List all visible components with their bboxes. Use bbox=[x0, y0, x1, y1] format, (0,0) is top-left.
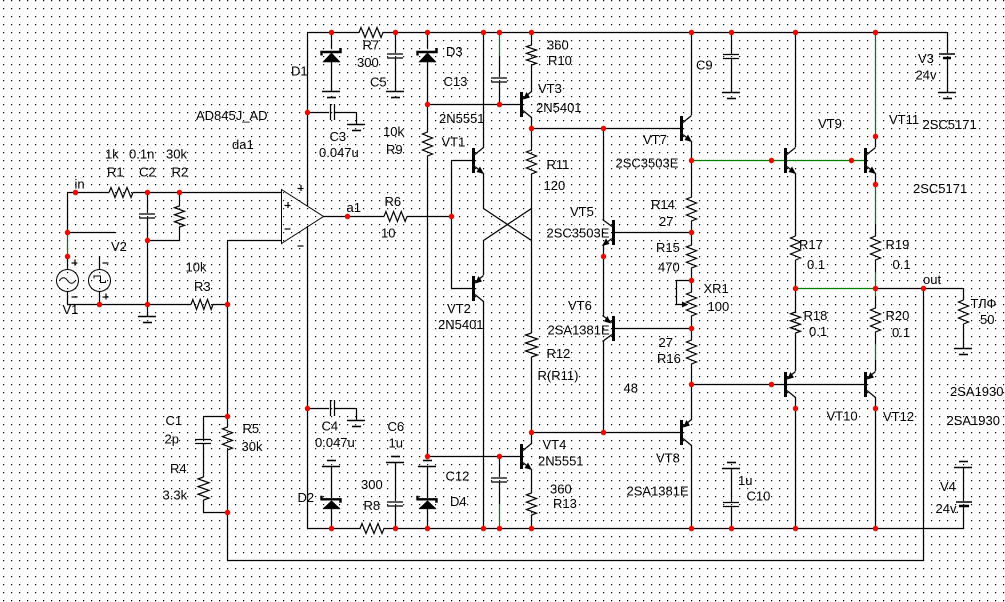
wire C12 bottom green bbox=[499, 504, 501, 528]
svg-text:R8: R8 bbox=[364, 498, 381, 513]
svg-text:24v.: 24v. bbox=[936, 501, 960, 516]
wire top positive rail left bbox=[307, 32, 331, 34]
wire R20 top green bbox=[875, 289, 877, 296]
resistor R1 1k bbox=[109, 188, 133, 198]
svg-text:27: 27 bbox=[659, 335, 673, 350]
svg-text:D3: D3 bbox=[446, 44, 463, 59]
svg-text:24v: 24v bbox=[916, 68, 937, 83]
wire VT8 base row bbox=[531, 432, 680, 434]
svg-text:da1: da1 bbox=[232, 137, 254, 152]
svg-text:V4: V4 bbox=[940, 479, 956, 494]
svg-text:100: 100 bbox=[708, 299, 730, 314]
wire R16 output base row bbox=[691, 384, 864, 386]
wire x531 middle column bbox=[531, 208, 533, 333]
wire VT5 VT6 emitter join bbox=[603, 245, 605, 316]
wire bottom row to R3 bbox=[67, 304, 191, 306]
svg-text:R5: R5 bbox=[243, 421, 260, 436]
wire C12 top lead bbox=[499, 456, 501, 477]
wire R9 column down bbox=[427, 168, 429, 456]
svg-text:AD845J_AD: AD845J_AD bbox=[196, 108, 268, 123]
wire left power vertical lower bbox=[307, 226, 309, 528]
svg-text:27: 27 bbox=[659, 214, 673, 229]
svg-text:R9: R9 bbox=[386, 142, 403, 157]
capacitor C10 1u bbox=[723, 503, 739, 507]
zener diode D1 bbox=[322, 32, 341, 91]
wire VT9 collector to rail bbox=[795, 32, 797, 147]
wire top positive rail right bbox=[395, 32, 947, 34]
capacitor C4 0.047u bbox=[307, 400, 357, 420]
svg-text:C13: C13 bbox=[444, 74, 468, 89]
wire feedback vertical upper bbox=[227, 240, 229, 416]
wire R13 to bottom rail bbox=[531, 515, 533, 528]
wire R17 to out row bbox=[795, 260, 797, 288]
svg-text:30k: 30k bbox=[242, 439, 263, 454]
wire VT11 emitter stub bbox=[875, 173, 877, 184]
wire R19 top green bbox=[875, 184, 877, 224]
svg-text:10: 10 bbox=[381, 226, 395, 241]
resistor R17 0.1 bbox=[791, 236, 801, 260]
wire VT3 collector stub bbox=[531, 117, 533, 128]
svg-text:3.3k: 3.3k bbox=[163, 488, 188, 503]
wire out row bbox=[875, 288, 963, 290]
resistor R5 30k bbox=[223, 416, 233, 512]
transistor VT9 2SC5171 bbox=[786, 148, 797, 175]
resistor R14 27 bbox=[687, 160, 697, 232]
source V1 sine bbox=[57, 256, 79, 297]
svg-text:10k: 10k bbox=[383, 124, 404, 139]
resistor R6 10 bbox=[384, 212, 407, 222]
resistor R9 10k bbox=[423, 104, 433, 168]
wire R18 to VT10 emitter bbox=[795, 333, 797, 371]
wire C10 top bbox=[731, 468, 733, 502]
svg-text:a1: a1 bbox=[347, 200, 361, 215]
wire bottom feedback return bbox=[227, 560, 923, 562]
svg-text:C3: C3 bbox=[330, 129, 347, 144]
svg-text:R16: R16 bbox=[657, 351, 681, 366]
svg-text:R19: R19 bbox=[886, 237, 910, 252]
svg-text:out: out bbox=[923, 272, 941, 287]
zener diode D2 bbox=[322, 466, 341, 528]
wire D3 node row bbox=[427, 104, 520, 106]
svg-text:0.047u: 0.047u bbox=[315, 435, 355, 450]
wire C2 R2 bottom join bbox=[147, 240, 179, 242]
battery V3 24v bbox=[939, 54, 955, 92]
wire VT5 collector up bbox=[603, 128, 605, 220]
svg-text:2SA1930: 2SA1930 bbox=[950, 384, 1004, 399]
svg-text:R1: R1 bbox=[107, 165, 124, 180]
wire C12 lower black lead bbox=[499, 482, 501, 504]
svg-text:ТЛФ: ТЛФ bbox=[971, 296, 997, 311]
svg-text:C1: C1 bbox=[166, 413, 183, 428]
wire C1 top lead bbox=[203, 416, 205, 439]
svg-text:VT5: VT5 bbox=[570, 204, 594, 219]
svg-text:VT10: VT10 bbox=[827, 409, 858, 424]
wire VT7 collector to rail bbox=[691, 32, 693, 115]
svg-text:VT11: VT11 bbox=[889, 112, 919, 127]
potentiometer XR1 100 body bbox=[687, 280, 697, 328]
svg-text:R7: R7 bbox=[363, 38, 380, 53]
svg-text:2SA1381E: 2SA1381E bbox=[627, 484, 689, 499]
svg-text:0.1: 0.1 bbox=[893, 257, 911, 272]
ground bars above D4 bbox=[418, 461, 436, 467]
ground bars above C10 bbox=[722, 463, 740, 469]
svg-text:48: 48 bbox=[624, 381, 638, 396]
svg-text:R11: R11 bbox=[547, 157, 570, 172]
wire cross diagonal 1 bbox=[484, 209, 532, 241]
potentiometer XR1 wiper bbox=[676, 280, 691, 308]
svg-text:300: 300 bbox=[361, 477, 383, 492]
svg-text:C6: C6 bbox=[388, 419, 405, 434]
wire out load drop bbox=[963, 288, 965, 300]
capacitor C9 bbox=[723, 55, 739, 59]
svg-text:R14: R14 bbox=[651, 197, 675, 212]
wire R1 to opamp noninverting input bbox=[133, 192, 281, 194]
svg-text:VT1: VT1 bbox=[442, 135, 466, 150]
svg-text:470: 470 bbox=[658, 260, 680, 275]
wire opamp output bbox=[323, 216, 384, 218]
svg-text:2N5401: 2N5401 bbox=[438, 317, 484, 332]
wire VT9 emitter to R17 bbox=[795, 173, 797, 236]
svg-text:C9: C9 bbox=[696, 58, 713, 73]
svg-text:C2: C2 bbox=[139, 165, 156, 180]
capacitor C2 0.1n bbox=[139, 214, 155, 218]
wire cross diagonal 2 bbox=[484, 209, 532, 241]
svg-text:D4: D4 bbox=[450, 494, 467, 509]
resistor R8 300 bbox=[331, 524, 395, 534]
wire in drop left bbox=[67, 192, 69, 232]
transistor VT7 2SC3503E bbox=[682, 116, 693, 143]
ground under TLF load bbox=[954, 349, 972, 355]
resistor R20 0.1 bbox=[871, 296, 881, 344]
op-amp da1 AD845J_AD bbox=[282, 185, 324, 246]
wire opamp inverting input bbox=[227, 240, 281, 242]
svg-text:VT3: VT3 bbox=[538, 81, 562, 96]
capacitor C3 0.047u bbox=[307, 104, 357, 124]
svg-text:VT9: VT9 bbox=[818, 116, 842, 131]
wire R20 to VT12 emitter bbox=[875, 360, 877, 371]
wire VT6 collector down bbox=[603, 341, 605, 432]
battery V4 24v bbox=[956, 467, 972, 506]
source V2 pulse bbox=[89, 256, 111, 304]
wire V3 top lead bbox=[947, 32, 949, 53]
resistor R13 360 bbox=[527, 493, 537, 515]
wire R4 bottom bbox=[203, 500, 227, 513]
ground under C9 bbox=[722, 93, 740, 99]
svg-text:1u: 1u bbox=[389, 436, 403, 451]
svg-text:2SC3503E: 2SC3503E bbox=[547, 226, 610, 241]
wire in to R1 bbox=[67, 192, 109, 194]
wire R6 to node a1 bbox=[407, 216, 451, 218]
wire C13 bottom lead bbox=[499, 82, 501, 104]
svg-text:C5: C5 bbox=[370, 75, 387, 90]
ground at C3 bbox=[347, 125, 365, 131]
resistor R2 30k bbox=[175, 192, 185, 240]
transistor VT8 2SA1381E bbox=[682, 420, 692, 446]
resistor R16 27 bbox=[687, 328, 697, 384]
resistor TLF 50 load bbox=[959, 300, 969, 348]
wire C10 bottom bbox=[731, 506, 733, 528]
svg-text:R17: R17 bbox=[799, 237, 823, 252]
ground bars above D2 bbox=[322, 461, 340, 467]
resistor R12 R(R11) bbox=[526, 333, 538, 357]
svg-text:V1: V1 bbox=[63, 302, 79, 317]
ground under C5 bbox=[386, 92, 404, 98]
resistor R3 10k bbox=[191, 300, 227, 310]
wire VT6 base row bbox=[614, 328, 691, 330]
svg-text:360: 360 bbox=[547, 38, 569, 53]
wire R12 to VT4 collector bbox=[531, 357, 533, 444]
resistor R15 470 bbox=[687, 232, 697, 280]
resistor R4 3.3k bbox=[198, 477, 209, 500]
svg-text:2SC5171: 2SC5171 bbox=[913, 181, 967, 196]
svg-text:R4: R4 bbox=[170, 461, 187, 476]
transistor VT6 2SA1381E bbox=[603, 316, 614, 342]
wire green V1 segment bbox=[67, 232, 69, 256]
wire feedback vertical lower bbox=[227, 512, 229, 560]
svg-text:VT7: VT7 bbox=[643, 132, 667, 147]
wire C1 branch top bbox=[203, 416, 227, 418]
wire VT8 emitter up bbox=[691, 384, 693, 420]
wire C13 top green bbox=[499, 33, 501, 56]
svg-text:VT8: VT8 bbox=[656, 451, 680, 466]
wire VT12 collector to bottom rail bbox=[875, 397, 877, 528]
wire bottom negative rail right bbox=[395, 528, 963, 530]
svg-text:R12: R12 bbox=[547, 346, 571, 361]
capacitor C13 bbox=[491, 78, 507, 82]
resistor R19 0.1 bbox=[871, 224, 881, 272]
svg-text:1u: 1u bbox=[738, 473, 752, 488]
wire VT11 collector stub bbox=[875, 136, 877, 147]
wire driver bias green row bbox=[691, 160, 864, 162]
svg-text:in: in bbox=[75, 177, 85, 192]
svg-text:R3: R3 bbox=[194, 279, 211, 294]
svg-text:R2: R2 bbox=[172, 165, 189, 180]
ground at C4 bbox=[347, 421, 365, 427]
transistor VT10 2SA1930 bbox=[786, 372, 796, 398]
wire V1 to bottom row bbox=[67, 291, 69, 304]
wire VT1 emitter down bbox=[483, 173, 485, 208]
ground bars above V4 bbox=[954, 462, 972, 468]
resistor R18 0.1 bbox=[791, 312, 801, 333]
wire VT4 emitter to R13 bbox=[531, 469, 533, 493]
wire bottom negative rail left bbox=[307, 528, 331, 530]
svg-text:R20: R20 bbox=[886, 308, 910, 323]
wire branch down to VT2 base bbox=[451, 216, 472, 289]
wire stub at in node bbox=[67, 232, 115, 234]
wire out feedback drop bbox=[923, 288, 925, 560]
wire VT11 collector green bbox=[875, 33, 877, 136]
svg-text:0.1: 0.1 bbox=[892, 325, 910, 340]
wire V4 bottom lead bbox=[963, 506, 965, 528]
zener diode D4 bbox=[418, 466, 437, 528]
transistor VT3 2N5401 bbox=[522, 92, 532, 118]
ground under D1 bbox=[322, 92, 340, 98]
svg-text:D1: D1 bbox=[291, 64, 308, 79]
wire branch up to VT1 base bbox=[451, 160, 472, 216]
svg-text:10k: 10k bbox=[186, 260, 207, 275]
svg-text:0.1: 0.1 bbox=[807, 257, 825, 272]
svg-text:0.047u: 0.047u bbox=[319, 145, 359, 160]
wire VT10 collector to bottom rail bbox=[795, 397, 797, 528]
svg-text:R10: R10 bbox=[548, 53, 572, 68]
capacitor C5 bbox=[387, 32, 403, 91]
svg-text:XR1: XR1 bbox=[704, 281, 729, 296]
wire C2 column bottom bbox=[147, 240, 149, 304]
svg-text:30k: 30k bbox=[166, 147, 187, 162]
svg-text:1k: 1k bbox=[105, 147, 119, 162]
transistor VT1 2N5551 bbox=[474, 148, 485, 175]
capacitor C12 bbox=[491, 478, 507, 482]
wire VT3 emitter stub bbox=[531, 80, 533, 92]
svg-text:2N5401: 2N5401 bbox=[536, 100, 582, 115]
wire VT7 emitter down bbox=[691, 141, 693, 160]
transistor VT12 2SA1930 bbox=[866, 372, 876, 398]
svg-text:2p: 2p bbox=[165, 432, 179, 447]
ground under V3 bbox=[938, 93, 956, 99]
svg-text:VT12: VT12 bbox=[883, 409, 914, 424]
resistor R11 120 bbox=[527, 128, 537, 208]
transistor VT11 2SC5171 bbox=[866, 148, 877, 175]
wire VT3 collector node row bbox=[531, 128, 680, 130]
wire C2 column top bbox=[147, 192, 149, 213]
wire left power vertical upper bbox=[307, 32, 309, 206]
svg-text:VT6: VT6 bbox=[568, 298, 592, 313]
transistor VT5 2SC3503E bbox=[602, 220, 614, 247]
ground bars above C6 bbox=[386, 457, 404, 463]
svg-text:0.1n: 0.1n bbox=[129, 147, 154, 162]
svg-text:2N5551: 2N5551 bbox=[439, 111, 485, 126]
svg-text:360: 360 bbox=[550, 482, 572, 497]
wire C9 bottom lead bbox=[731, 58, 733, 92]
svg-text:2SC3503E: 2SC3503E bbox=[616, 156, 679, 171]
capacitor C6 1u bbox=[387, 462, 403, 528]
transistor VT4 2N5551 bbox=[522, 444, 533, 471]
svg-text:300: 300 bbox=[357, 55, 379, 70]
svg-text:C10: C10 bbox=[747, 489, 771, 504]
wire C13 upper black lead bbox=[499, 56, 501, 77]
svg-text:2SA1930: 2SA1930 bbox=[947, 413, 1001, 428]
wire C1 to R4 bbox=[203, 443, 205, 477]
capacitor C1 2p bbox=[195, 440, 211, 444]
svg-text:C4: C4 bbox=[322, 419, 339, 434]
svg-text:R15: R15 bbox=[656, 240, 680, 255]
svg-text:120: 120 bbox=[544, 178, 566, 193]
zener diode D3 bbox=[418, 32, 437, 104]
resistor R10 360 bbox=[527, 32, 537, 80]
wire R18 top lead bbox=[795, 288, 797, 312]
wire VT1 collector to rail bbox=[483, 32, 485, 148]
svg-text:V2: V2 bbox=[111, 239, 127, 254]
svg-text:C12: C12 bbox=[446, 469, 470, 484]
svg-text:0.1: 0.1 bbox=[809, 324, 827, 339]
wire VT4 base row bbox=[427, 456, 520, 458]
wire VT5 base row bbox=[614, 232, 691, 234]
svg-text:R6: R6 bbox=[385, 194, 402, 209]
svg-text:50: 50 bbox=[980, 312, 994, 327]
wire VT2 emitter up bbox=[483, 240, 485, 275]
svg-text:R(R11): R(R11) bbox=[538, 368, 579, 383]
wire VT2 collector to bottom rail bbox=[483, 301, 485, 528]
resistor R7 300 bbox=[331, 28, 395, 38]
wire out row green bbox=[795, 288, 875, 290]
wire R19 bottom green bbox=[875, 272, 877, 288]
svg-text:2SC5171: 2SC5171 bbox=[923, 117, 977, 132]
svg-text:2N5551: 2N5551 bbox=[538, 454, 584, 469]
svg-text:V3: V3 bbox=[918, 51, 934, 66]
wire C9 top lead bbox=[731, 32, 733, 54]
svg-text:VT4: VT4 bbox=[543, 437, 567, 452]
ground main bbox=[138, 304, 156, 323]
transistor VT2 2N5401 bbox=[474, 276, 484, 302]
svg-text:2SA1381E: 2SA1381E bbox=[548, 323, 610, 338]
svg-text:R13: R13 bbox=[553, 496, 577, 511]
svg-text:R18: R18 bbox=[804, 308, 828, 323]
svg-text:VT2: VT2 bbox=[447, 301, 471, 316]
wire R20 bottom green bbox=[875, 344, 877, 360]
wire VT8 collector to bottom rail bbox=[691, 445, 693, 528]
svg-text:D2: D2 bbox=[298, 490, 315, 505]
wire C2 column mid bbox=[147, 218, 149, 240]
